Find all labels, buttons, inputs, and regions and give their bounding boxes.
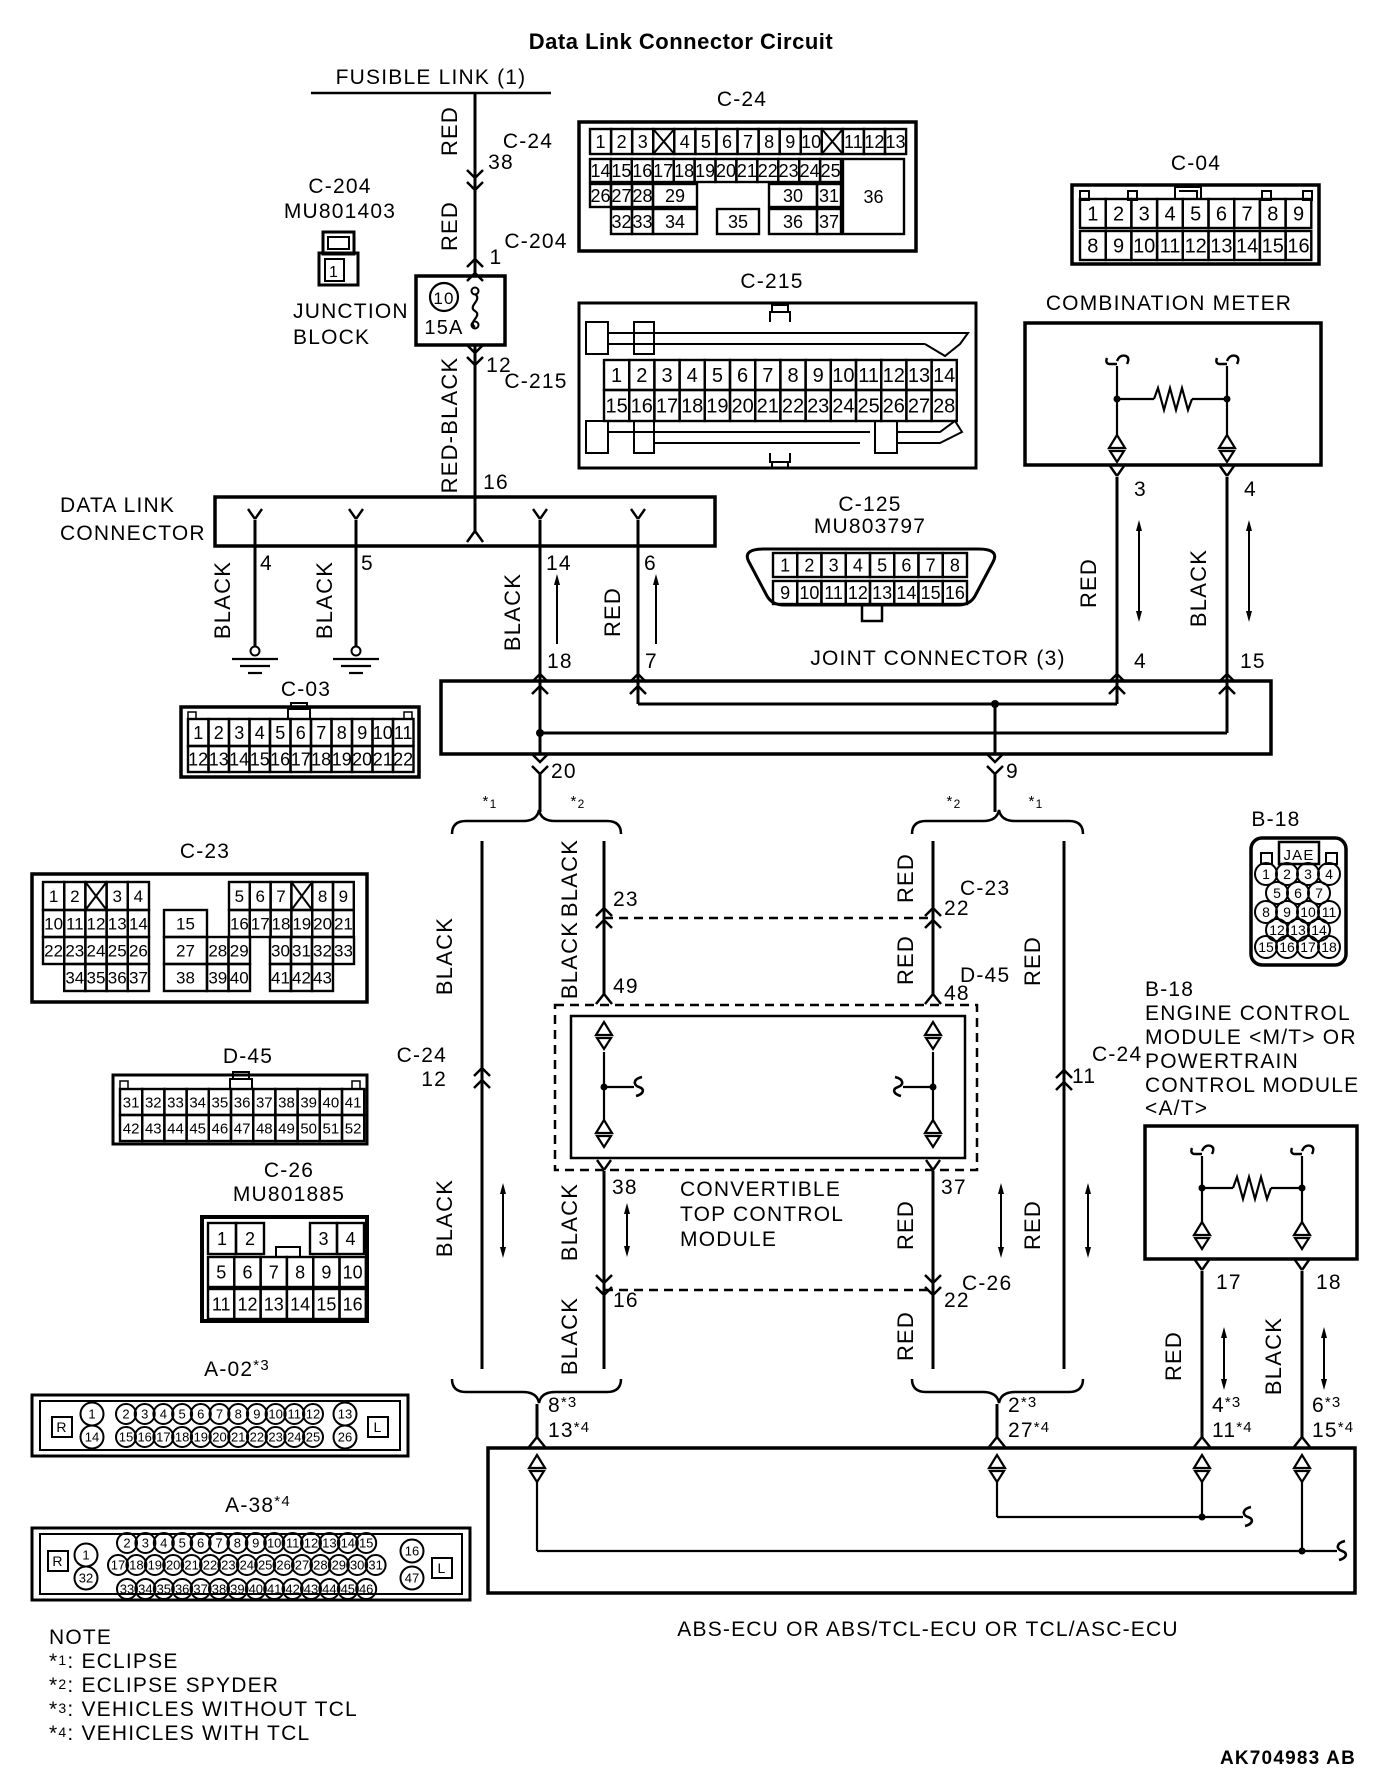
svg-text:28: 28 [632, 186, 652, 206]
svg-text:7: 7 [926, 556, 936, 576]
svg-text:6: 6 [737, 365, 748, 387]
svg-text:10: 10 [801, 132, 821, 152]
svg-text:5: 5 [216, 1263, 226, 1283]
wire: spyder black (left *2) lower [603, 1171, 606, 1369]
CTCM pin 38 exit fork [597, 1160, 611, 1170]
svg-text:12: 12 [237, 1295, 257, 1315]
connector C-204 icon [323, 232, 354, 254]
svg-text:9: 9 [253, 1407, 260, 1422]
svg-text:41: 41 [267, 1582, 281, 1597]
svg-text:37: 37 [256, 1094, 273, 1111]
svg-text:12: 12 [304, 1536, 318, 1551]
C-23 crossing on right spyder wire [925, 908, 941, 916]
exit arrows pin 9 [987, 754, 1003, 762]
svg-text:2: 2 [123, 1536, 130, 1551]
svg-text:8: 8 [1087, 236, 1098, 258]
svg-text:C-24: C-24 [717, 88, 767, 111]
svg-text:34: 34 [65, 969, 84, 988]
svg-text:40: 40 [249, 1582, 263, 1597]
DLC pin fork 4 [248, 509, 262, 519]
svg-text:11: 11 [66, 915, 84, 934]
svg-text:8: 8 [337, 723, 347, 743]
svg-text:5: 5 [275, 723, 285, 743]
connector C-23 pinout [32, 874, 367, 1002]
CTCM solid box [571, 1016, 965, 1158]
svg-text:<A/T>: <A/T> [1145, 1097, 1208, 1120]
joint connector box [441, 681, 1271, 754]
svg-text:25: 25 [306, 1430, 320, 1445]
svg-text:19: 19 [706, 396, 728, 418]
svg-text:25: 25 [258, 1558, 272, 1573]
svg-text:17: 17 [111, 1558, 125, 1573]
direction arrow [502, 1189, 504, 1252]
svg-text:22: 22 [250, 1430, 264, 1445]
svg-text:19: 19 [292, 915, 311, 934]
svg-text:1: 1 [82, 1548, 89, 1563]
svg-text:23: 23 [65, 942, 84, 961]
svg-text:7: 7 [276, 887, 285, 906]
svg-text:RED: RED [1020, 936, 1045, 986]
svg-text:33: 33 [334, 942, 353, 961]
svg-text:MU801885: MU801885 [233, 1183, 345, 1206]
svg-text:15: 15 [921, 583, 941, 603]
svg-text:4: 4 [260, 552, 273, 575]
svg-text:8: 8 [950, 556, 960, 576]
svg-text:11: 11 [1072, 1065, 1096, 1088]
svg-text:50: 50 [300, 1120, 317, 1137]
svg-text:4: 4 [853, 556, 863, 576]
svg-text:36: 36 [234, 1094, 251, 1111]
svg-text:C-215: C-215 [504, 370, 567, 393]
DLC pin fork 14 [533, 509, 547, 519]
svg-text:22: 22 [782, 396, 804, 418]
svg-text:8: 8 [787, 365, 798, 387]
svg-text:15: 15 [316, 1295, 336, 1315]
svg-text:15: 15 [176, 915, 195, 934]
svg-text:ABS-ECU OR ABS/TCL-ECU OR TCL/: ABS-ECU OR ABS/TCL-ECU OR TCL/ASC-ECU [677, 1618, 1178, 1641]
svg-text:CONVERTIBLE: CONVERTIBLE [680, 1178, 841, 1201]
svg-text:31: 31 [819, 186, 839, 206]
svg-text:11: 11 [394, 723, 413, 743]
ABS shield 1 [529, 1455, 545, 1468]
wire: DLC pin 14 to joint connector 18 [539, 520, 542, 681]
svg-text:20: 20 [212, 1430, 226, 1445]
connector C-03 pinout [181, 707, 419, 777]
svg-text:3: 3 [661, 365, 672, 387]
svg-text:4: 4 [687, 365, 698, 387]
svg-text:15: 15 [359, 1536, 373, 1551]
svg-text:14: 14 [85, 1430, 99, 1445]
entry arrows pin 7 [630, 674, 646, 682]
ABS entry fork mid [989, 1437, 1005, 1447]
svg-text:28: 28 [313, 1558, 327, 1573]
svg-text:48: 48 [256, 1120, 273, 1137]
connector crossing arrows below junction block [467, 345, 483, 353]
svg-text:26: 26 [883, 396, 905, 418]
svg-text:8: 8 [295, 1263, 305, 1283]
direction arrow [1223, 1333, 1225, 1384]
svg-text:18: 18 [547, 650, 573, 673]
junction block box [416, 276, 505, 345]
svg-text:CONTROL MODULE: CONTROL MODULE [1145, 1074, 1359, 1097]
svg-text:7: 7 [1315, 885, 1323, 901]
svg-text:4: 4 [134, 887, 143, 906]
svg-text:42: 42 [123, 1120, 140, 1137]
svg-text:3: 3 [318, 1229, 328, 1249]
svg-text:*3: VEHICLES WITHOUT TCL: *3: VEHICLES WITHOUT TCL [49, 1698, 358, 1721]
svg-text:23: 23 [613, 888, 639, 911]
svg-text:51: 51 [323, 1120, 340, 1137]
svg-text:33: 33 [120, 1582, 134, 1597]
svg-text:30: 30 [783, 186, 803, 206]
svg-text:6: 6 [242, 1263, 252, 1283]
svg-text:8: 8 [1262, 904, 1270, 920]
svg-text:29: 29 [332, 1558, 346, 1573]
connector C-215 pinout [579, 303, 976, 468]
svg-text:8: 8 [764, 132, 774, 152]
svg-text:BLACK: BLACK [557, 1183, 582, 1261]
comb meter left shield symbol [1109, 435, 1125, 448]
fusible link bus bar [311, 92, 551, 95]
svg-text:CONNECTOR: CONNECTOR [60, 522, 206, 545]
svg-text:9: 9 [1283, 904, 1291, 920]
svg-text:20: 20 [716, 161, 736, 181]
connector C-04 pinout [1072, 185, 1319, 264]
svg-text:44: 44 [322, 1582, 336, 1597]
svg-text:11: 11 [1322, 904, 1337, 920]
svg-text:MODULE: MODULE [680, 1228, 777, 1251]
svg-text:4: 4 [1244, 478, 1257, 501]
direction arrow [1248, 526, 1250, 616]
svg-text:R: R [56, 1419, 67, 1435]
svg-text:1: 1 [217, 1229, 227, 1249]
svg-text:21: 21 [231, 1430, 245, 1445]
svg-text:C-24: C-24 [397, 1044, 447, 1067]
svg-text:47: 47 [234, 1120, 251, 1137]
svg-text:35: 35 [157, 1582, 171, 1597]
svg-text:C-04: C-04 [1171, 152, 1221, 175]
svg-text:33: 33 [632, 212, 652, 232]
svg-text:C-24: C-24 [503, 130, 553, 153]
svg-text:40: 40 [230, 969, 249, 988]
C-23 crossing on spyder wire [596, 908, 612, 916]
svg-text:34: 34 [138, 1582, 152, 1597]
svg-text:15: 15 [119, 1430, 133, 1445]
ABS entry fork 4 [1294, 1437, 1310, 1447]
svg-text:BLACK: BLACK [557, 1297, 582, 1375]
svg-text:32: 32 [611, 212, 631, 232]
svg-text:4: 4 [160, 1407, 167, 1422]
wire: ECM 18 to ABS [1301, 1271, 1304, 1437]
svg-text:20: 20 [352, 750, 372, 770]
svg-text:22: 22 [203, 1558, 217, 1573]
svg-text:34: 34 [189, 1094, 206, 1111]
svg-text:10: 10 [373, 723, 393, 743]
svg-text:C-26: C-26 [264, 1159, 314, 1182]
svg-text:26: 26 [276, 1558, 290, 1573]
svg-text:19: 19 [148, 1558, 162, 1573]
svg-text:RED: RED [893, 935, 918, 985]
svg-text:COMBINATION METER: COMBINATION METER [1046, 292, 1292, 315]
svg-text:16: 16 [270, 750, 290, 770]
svg-text:3: 3 [638, 132, 648, 152]
svg-text:2: 2 [804, 556, 814, 576]
svg-text:24: 24 [240, 1558, 254, 1573]
svg-text:14: 14 [1236, 236, 1258, 258]
svg-text:RED-BLACK: RED-BLACK [437, 357, 462, 494]
svg-text:52: 52 [345, 1120, 362, 1137]
svg-text:ENGINE CONTROL: ENGINE CONTROL [1145, 1002, 1351, 1025]
svg-text:14: 14 [546, 552, 572, 575]
wire: fusible link to C-24 pin 38 [474, 93, 477, 276]
svg-text:4: 4 [1325, 866, 1333, 882]
svg-text:35: 35 [212, 1094, 229, 1111]
svg-text:5: 5 [712, 365, 723, 387]
svg-text:16: 16 [613, 1289, 639, 1312]
svg-text:31: 31 [123, 1094, 140, 1111]
svg-text:L: L [374, 1419, 383, 1435]
svg-text:11: 11 [858, 365, 879, 387]
wire: spyder red (right *2) upper [932, 841, 935, 994]
svg-text:8: 8 [234, 1536, 241, 1551]
svg-text:13: 13 [872, 583, 892, 603]
wire: comb meter pin 3 to joint connector 4 [1116, 477, 1119, 681]
svg-text:11: 11 [1160, 236, 1181, 258]
comb meter right shield symbol [1219, 435, 1235, 448]
svg-text:D-45: D-45 [223, 1045, 273, 1068]
svg-text:7: 7 [215, 1536, 222, 1551]
svg-text:38: 38 [176, 969, 195, 988]
svg-text:2: 2 [245, 1229, 255, 1249]
svg-text:C-215: C-215 [740, 270, 803, 293]
svg-text:36: 36 [863, 187, 883, 207]
svg-text:30: 30 [350, 1558, 364, 1573]
svg-text:8: 8 [1267, 204, 1278, 226]
ECM pin 18 fork [1295, 1260, 1309, 1270]
svg-text:8: 8 [318, 887, 327, 906]
svg-text:6: 6 [197, 1536, 204, 1551]
svg-text:1: 1 [193, 723, 203, 743]
wire: right branch to ABS [996, 1404, 999, 1437]
svg-text:R: R [52, 1553, 63, 1569]
terminating resistor [1117, 398, 1154, 400]
svg-text:19: 19 [695, 161, 715, 181]
dashed link C-23 22-23 [604, 917, 933, 920]
svg-text:9: 9 [785, 132, 795, 152]
svg-text:7: 7 [762, 365, 773, 387]
svg-text:C-03: C-03 [281, 678, 331, 701]
svg-text:32: 32 [145, 1094, 162, 1111]
ECM right internal wire [1291, 1148, 1302, 1154]
svg-text:17: 17 [291, 750, 311, 770]
svg-text:11: 11 [844, 132, 863, 152]
svg-text:BLACK: BLACK [1186, 549, 1211, 627]
svg-text:33: 33 [167, 1094, 184, 1111]
svg-text:13: 13 [338, 1407, 352, 1422]
svg-text:4: 4 [1134, 650, 1147, 673]
svg-text:18: 18 [1316, 1271, 1342, 1294]
svg-text:RED: RED [437, 201, 462, 251]
svg-text:TOP CONTROL: TOP CONTROL [680, 1203, 844, 1226]
svg-text:5: 5 [877, 556, 887, 576]
CTCM left internal wire [603, 1052, 605, 1120]
svg-text:*2: ECLIPSE SPYDER: *2: ECLIPSE SPYDER [49, 1674, 279, 1697]
combination meter box [1025, 323, 1321, 465]
svg-text:7: 7 [216, 1407, 223, 1422]
svg-text:6: 6 [644, 552, 657, 575]
svg-text:7: 7 [1242, 204, 1253, 226]
svg-text:31: 31 [292, 942, 311, 961]
svg-text:RED: RED [437, 106, 462, 156]
svg-text:2: 2 [636, 365, 647, 387]
svg-text:7: 7 [269, 1263, 279, 1283]
svg-text:9: 9 [321, 1263, 331, 1283]
svg-text:10: 10 [343, 1263, 363, 1283]
svg-text:2: 2 [1113, 204, 1124, 226]
svg-text:6: 6 [197, 1407, 204, 1422]
svg-text:13: 13 [1290, 922, 1306, 938]
svg-text:B-18: B-18 [1145, 978, 1194, 1001]
svg-text:36: 36 [108, 969, 127, 988]
svg-text:BLACK: BLACK [432, 917, 457, 995]
direction arrow [655, 580, 657, 644]
svg-text:36: 36 [175, 1582, 189, 1597]
svg-text:26: 26 [590, 186, 610, 206]
svg-text:6: 6 [255, 887, 264, 906]
svg-text:2: 2 [70, 887, 79, 906]
connector A-02 pinout [32, 1395, 408, 1456]
svg-text:47: 47 [405, 1571, 419, 1586]
C-26 crossing on spyder wire [596, 1275, 612, 1283]
svg-text:15: 15 [611, 161, 631, 181]
svg-text:BLACK: BLACK [557, 921, 582, 999]
wire: DLC pin 4 to ground [254, 520, 257, 647]
svg-text:16: 16 [945, 583, 965, 603]
svg-text:38: 38 [212, 1582, 226, 1597]
wire: ECM 17 to ABS [1201, 1271, 1204, 1437]
svg-text:3: 3 [829, 556, 839, 576]
svg-text:RED: RED [1076, 558, 1101, 608]
fuse symbol [472, 288, 479, 295]
svg-text:7: 7 [316, 723, 326, 743]
svg-text:1: 1 [780, 556, 790, 576]
svg-text:16: 16 [1279, 939, 1295, 955]
ground (pin 4) [251, 647, 260, 656]
CTCM right shield lower [925, 1120, 941, 1133]
wire: comb meter pin 4 to joint connector 15 [1226, 477, 1229, 681]
ABS shield 3 [1194, 1455, 1210, 1468]
svg-text:DATA LINK: DATA LINK [60, 494, 175, 517]
svg-text:13: 13 [885, 132, 905, 152]
left brace (variant split) [452, 810, 621, 834]
svg-text:20: 20 [731, 396, 753, 418]
svg-text:21: 21 [737, 161, 757, 181]
svg-text:23: 23 [268, 1430, 282, 1445]
svg-text:L: L [438, 1560, 447, 1576]
fuse number circle 10 [430, 283, 458, 311]
svg-text:22: 22 [393, 750, 413, 770]
svg-text:24: 24 [800, 161, 820, 181]
svg-text:B-18: B-18 [1251, 808, 1300, 831]
svg-text:3: 3 [112, 887, 121, 906]
svg-text:3: 3 [234, 723, 244, 743]
joint connector internal red bus [637, 681, 640, 704]
svg-text:C-204: C-204 [504, 230, 567, 253]
svg-text:18: 18 [175, 1430, 189, 1445]
svg-text:16: 16 [483, 471, 509, 494]
svg-text:18: 18 [681, 396, 703, 418]
svg-text:6: 6 [296, 723, 306, 743]
svg-text:43: 43 [145, 1120, 162, 1137]
svg-text:BLACK: BLACK [557, 839, 582, 917]
svg-text:POWERTRAIN: POWERTRAIN [1145, 1050, 1299, 1073]
svg-text:8: 8 [235, 1407, 242, 1422]
svg-text:11: 11 [288, 1407, 302, 1422]
ABS-ECU box [488, 1448, 1355, 1593]
svg-text:12: 12 [188, 750, 208, 770]
svg-text:1: 1 [49, 887, 58, 906]
ABS entry fork 3 [1194, 1437, 1210, 1447]
svg-text:16: 16 [230, 915, 249, 934]
svg-text:6: 6 [901, 556, 911, 576]
svg-text:25: 25 [108, 942, 127, 961]
svg-text:25: 25 [857, 396, 879, 418]
svg-text:46: 46 [359, 1582, 373, 1597]
svg-text:27: 27 [611, 186, 631, 206]
svg-text:17: 17 [156, 1430, 170, 1445]
svg-text:28: 28 [208, 942, 227, 961]
ABS shield 2 [989, 1455, 1005, 1468]
svg-text:21: 21 [373, 750, 393, 770]
svg-text:38: 38 [612, 1176, 638, 1199]
svg-text:7: 7 [645, 650, 658, 673]
svg-text:5: 5 [1273, 885, 1281, 901]
svg-text:10: 10 [799, 583, 819, 603]
direction arrow [556, 580, 558, 644]
svg-text:C-24: C-24 [1092, 1043, 1142, 1066]
svg-text:18: 18 [1321, 939, 1337, 955]
CTCM left shield lower [596, 1120, 612, 1133]
svg-text:14: 14 [933, 365, 955, 387]
svg-text:43: 43 [304, 1582, 318, 1597]
svg-text:37: 37 [193, 1582, 207, 1597]
svg-text:2: 2 [1283, 866, 1291, 882]
svg-text:27: 27 [908, 396, 930, 418]
svg-text:RED: RED [893, 1200, 918, 1250]
direction arrow [1138, 526, 1140, 616]
ECM left shield [1194, 1222, 1210, 1235]
svg-text:BLOCK: BLOCK [293, 326, 370, 349]
svg-text:40: 40 [323, 1094, 340, 1111]
svg-text:32: 32 [313, 942, 332, 961]
svg-text:19: 19 [194, 1430, 208, 1445]
svg-text:5: 5 [361, 552, 374, 575]
comb meter pin 4 fork [1220, 466, 1234, 476]
svg-text:JAE: JAE [1283, 847, 1314, 864]
CTCM dashed outline [555, 1005, 977, 1170]
svg-text:3: 3 [1304, 866, 1312, 882]
svg-text:1: 1 [329, 264, 339, 281]
svg-text:16: 16 [1287, 236, 1309, 258]
connector B-18 pinout [1251, 838, 1346, 965]
ECM left internal wire [1191, 1148, 1202, 1154]
svg-text:12: 12 [1269, 922, 1285, 938]
right brace (variant split) [912, 810, 1083, 834]
direction arrow [1087, 1189, 1089, 1252]
svg-text:MODULE <M/T> OR: MODULE <M/T> OR [1145, 1026, 1357, 1049]
svg-text:12: 12 [864, 132, 884, 152]
svg-text:12: 12 [848, 583, 868, 603]
